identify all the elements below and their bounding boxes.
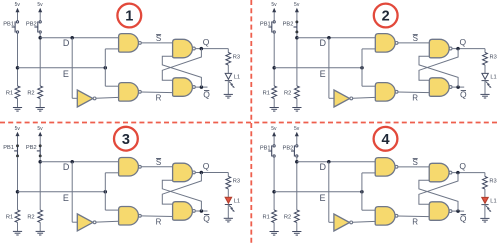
divider dashed vertical xyxy=(250,0,252,243)
wire E to gate U2 xyxy=(105,85,118,87)
svg-text:R3: R3 xyxy=(233,179,240,185)
wire R3 to LED xyxy=(484,189,486,197)
LED L1 (on) xyxy=(482,197,488,203)
NAND gate U4 latch top xyxy=(429,163,449,182)
svg-text:5v: 5v xyxy=(37,126,43,132)
wire Q output xyxy=(452,48,485,50)
resistor R3 xyxy=(226,176,231,189)
inverter U3 xyxy=(77,90,93,107)
resistor R2 xyxy=(38,86,43,99)
svg-text:5v: 5v xyxy=(271,2,277,8)
svg-text:5v: 5v xyxy=(294,2,300,8)
wire E to gate U1 xyxy=(361,173,363,210)
NAND gate U2 xyxy=(375,207,395,226)
wire R3 to LED xyxy=(227,189,229,197)
node Q-bar xyxy=(456,209,460,213)
wire LED to ground xyxy=(484,81,486,95)
NAND gate U1 xyxy=(119,34,139,53)
svg-text:D: D xyxy=(319,162,326,172)
5V supply for PB1 (step 3) xyxy=(17,135,19,145)
wire Q output xyxy=(452,172,485,174)
LED L1 (off) xyxy=(225,73,231,79)
wire Q to R3 xyxy=(227,49,229,53)
svg-text:PB2: PB2 xyxy=(26,21,37,27)
wire D line xyxy=(297,161,375,163)
ground below LED xyxy=(224,93,233,95)
wire S from U1 xyxy=(141,166,173,168)
node D junction xyxy=(38,36,42,40)
wire Q to R3 xyxy=(227,173,229,177)
ground below R1 xyxy=(17,99,19,108)
svg-text:R2: R2 xyxy=(27,215,34,221)
wire R3 to LED xyxy=(227,65,229,73)
ground below LED xyxy=(480,217,489,219)
svg-text:R1: R1 xyxy=(263,215,270,221)
ground below R2 xyxy=(39,222,41,231)
svg-text:5v: 5v xyxy=(271,126,277,132)
5V supply for PB1 (step 4) xyxy=(273,135,275,145)
node Q xyxy=(456,171,460,175)
node E branch xyxy=(104,66,108,70)
inverter U3 xyxy=(334,214,350,231)
resistor R3 xyxy=(483,53,488,66)
5V supply for PB2 (step 3) xyxy=(39,135,41,145)
pushbutton PB2 (step 1) xyxy=(37,21,39,32)
wire Q-bar to U4 input (cross) xyxy=(162,56,201,87)
node Q xyxy=(200,47,204,51)
pushbutton PB1 (step 3) xyxy=(17,145,19,156)
wire Q to R3 xyxy=(484,49,486,53)
pushbutton PB2 (step 3) xyxy=(39,145,41,156)
wire LED to ground xyxy=(227,205,229,219)
svg-text:2: 2 xyxy=(382,9,390,25)
ground below LED xyxy=(224,217,233,219)
svg-text:PB1: PB1 xyxy=(260,21,271,27)
NAND gate U2 xyxy=(119,83,139,102)
LED emission arrows xyxy=(229,82,233,87)
svg-text:1: 1 xyxy=(125,9,133,25)
ground below R1 xyxy=(273,223,275,232)
wire PB1 to R1 xyxy=(273,33,275,86)
wire Q to R3 xyxy=(484,173,486,177)
ground below R2 xyxy=(39,99,41,108)
pushbutton PB2 (step 4) xyxy=(293,145,295,156)
5V supply for PB2 (step 1) xyxy=(39,11,41,21)
resistor R1 xyxy=(272,86,277,99)
svg-text:PB1: PB1 xyxy=(260,145,271,151)
wire PB1 to R1 xyxy=(17,157,19,210)
ground below R2 xyxy=(296,99,298,108)
wire Q to U5 input (cross) xyxy=(419,49,458,81)
node D junction xyxy=(295,160,299,164)
svg-text:S: S xyxy=(413,34,418,43)
svg-text:S: S xyxy=(156,34,161,43)
node D junction xyxy=(295,36,299,40)
svg-text:R2: R2 xyxy=(27,91,34,97)
wire R from U2 xyxy=(398,215,430,218)
wire D line xyxy=(40,37,118,39)
node Q-bar xyxy=(200,209,204,213)
inverter U3 xyxy=(77,214,93,231)
svg-text:R: R xyxy=(156,94,162,103)
svg-text:E: E xyxy=(320,69,326,79)
wire D to inverter xyxy=(71,162,73,223)
step number 3 circle xyxy=(114,127,138,151)
wire D to inverter xyxy=(71,38,73,99)
wire PB2 to R2 xyxy=(39,157,41,210)
svg-text:R3: R3 xyxy=(490,55,497,61)
svg-text:Q: Q xyxy=(203,37,210,47)
pushbutton PB1 (step 1) xyxy=(14,21,16,32)
wire Q output xyxy=(196,172,229,174)
wire S from U1 xyxy=(398,42,430,44)
svg-text:5v: 5v xyxy=(15,126,21,132)
svg-text:5v: 5v xyxy=(294,126,300,132)
pushbutton PB1 (step 4) xyxy=(271,145,273,156)
wire D line xyxy=(297,37,375,39)
node Q-bar xyxy=(456,85,460,89)
svg-text:R3: R3 xyxy=(489,179,496,185)
wire E line xyxy=(18,67,106,69)
wire D to inverter xyxy=(328,38,330,99)
wire E line xyxy=(274,191,362,193)
wire E to gate U1 xyxy=(104,173,106,210)
node E junction xyxy=(272,66,276,70)
wire PB1 to R1 xyxy=(273,157,275,210)
wire PB2 to R2 xyxy=(296,33,298,86)
node E branch xyxy=(104,190,108,194)
wire D line xyxy=(40,161,118,163)
node E junction xyxy=(272,190,276,194)
svg-text:L1: L1 xyxy=(490,199,496,205)
svg-text:E: E xyxy=(319,193,325,203)
wire Q output xyxy=(196,48,229,50)
node E junction xyxy=(16,190,20,194)
svg-text:4: 4 xyxy=(381,132,389,148)
wire E line xyxy=(274,67,362,69)
svg-text:D: D xyxy=(63,162,70,172)
node D branch to inverter xyxy=(70,160,74,164)
divider dashed horizontal xyxy=(0,122,500,124)
svg-text:S: S xyxy=(156,158,161,167)
wire E to gate U1 xyxy=(104,49,106,86)
svg-text:Q: Q xyxy=(203,161,210,171)
NAND gate U5 latch bottom xyxy=(173,202,193,221)
wire D to inverter xyxy=(328,162,330,223)
wire Q-bar to U4 input (cross) xyxy=(162,180,201,211)
svg-text:D: D xyxy=(63,38,70,48)
LED emission arrows xyxy=(486,206,490,211)
svg-text:3: 3 xyxy=(122,132,130,148)
wire Q to U5 input (cross) xyxy=(162,173,201,205)
wire Q-bar to U4 input (cross) xyxy=(419,180,458,211)
svg-text:R3: R3 xyxy=(233,55,240,61)
NAND gate U5 latch bottom xyxy=(173,78,193,97)
node E branch xyxy=(360,190,364,194)
wire Q-bar output xyxy=(452,86,464,88)
wire R from U2 xyxy=(398,91,430,94)
NAND gate U4 latch top xyxy=(429,39,449,58)
resistor R1 xyxy=(15,210,20,223)
wire Q to U5 input (cross) xyxy=(419,173,458,205)
svg-text:L1: L1 xyxy=(234,199,240,205)
NAND gate U1 xyxy=(375,34,395,53)
wire inverter to gate U2 xyxy=(353,96,376,99)
wire inverter to gate U2 xyxy=(96,96,119,99)
svg-text:R1: R1 xyxy=(263,91,270,97)
svg-text:R2: R2 xyxy=(284,91,291,97)
svg-text:PB1: PB1 xyxy=(3,145,14,151)
wire Q-bar output xyxy=(452,210,464,212)
node Q xyxy=(456,47,460,51)
svg-text:Q: Q xyxy=(459,161,466,171)
5V supply for PB2 (step 4) xyxy=(296,135,298,145)
LED L1 (off) xyxy=(482,73,488,79)
svg-text:Q: Q xyxy=(459,37,466,47)
resistor R2 xyxy=(295,86,300,99)
resistor R1 xyxy=(15,86,20,99)
node Q xyxy=(200,171,204,175)
svg-text:5v: 5v xyxy=(15,2,21,8)
wire E to gate U2 xyxy=(362,85,375,87)
ground below R1 xyxy=(17,222,19,231)
wire R from U2 xyxy=(141,91,173,94)
wire S from U1 xyxy=(398,166,430,168)
wire E to gate U2 xyxy=(362,209,375,211)
pushbutton PB2 (step 2) xyxy=(296,21,298,32)
wire R3 to LED xyxy=(484,65,486,73)
5V supply for PB1 (step 2) xyxy=(273,11,275,21)
NAND gate U4 latch top xyxy=(173,39,193,58)
node E branch xyxy=(360,66,364,70)
wire R from U2 xyxy=(141,215,173,218)
resistor R3 xyxy=(483,177,488,190)
node D branch to inverter xyxy=(327,160,331,164)
NAND gate U2 xyxy=(375,83,395,102)
NAND gate U4 latch top xyxy=(173,163,193,182)
NAND gate U2 xyxy=(119,207,139,226)
node Q-bar xyxy=(200,85,204,89)
ground below LED xyxy=(480,93,489,95)
5V supply for PB1 (step 1) xyxy=(17,11,19,21)
inverter U3 xyxy=(334,90,350,107)
svg-text:R2: R2 xyxy=(284,215,291,221)
svg-text:R: R xyxy=(156,218,162,227)
LED emission arrows xyxy=(486,82,490,87)
wire Q to U5 input (cross) xyxy=(162,49,201,81)
wire E line xyxy=(18,191,106,193)
wire inverter to gate U2 xyxy=(96,220,119,223)
wire Q-bar output xyxy=(196,210,208,212)
LED L1 (on) xyxy=(225,197,231,203)
node D branch to inverter xyxy=(70,36,74,40)
wire Q-bar to U4 input (cross) xyxy=(419,56,458,87)
resistor R2 xyxy=(38,210,43,223)
5V supply for PB2 (step 2) xyxy=(296,11,298,21)
wire E to gate U1 xyxy=(361,49,363,86)
node D junction xyxy=(38,160,42,164)
ground below R1 xyxy=(273,99,275,108)
step number 1 circle xyxy=(117,4,141,28)
svg-text:E: E xyxy=(63,193,69,203)
svg-text:L1: L1 xyxy=(490,75,496,81)
wire E to gate U2 xyxy=(105,209,118,211)
svg-text:R1: R1 xyxy=(6,91,13,97)
LED emission arrows xyxy=(229,206,233,211)
svg-text:PB1: PB1 xyxy=(3,21,14,27)
svg-text:E: E xyxy=(63,69,69,79)
svg-text:PB2: PB2 xyxy=(283,21,294,27)
node E junction xyxy=(16,66,20,70)
wire PB1 to R1 xyxy=(17,33,19,86)
NAND gate U1 xyxy=(375,158,395,177)
svg-text:R: R xyxy=(412,218,418,227)
step number 2 circle xyxy=(374,4,398,28)
node D branch to inverter xyxy=(327,36,331,40)
wire S from U1 xyxy=(141,42,173,44)
resistor R1 xyxy=(272,210,277,223)
wire LED to ground xyxy=(484,205,486,219)
step number 4 circle xyxy=(374,127,398,151)
wire inverter to gate U2 xyxy=(353,220,376,223)
svg-text:L1: L1 xyxy=(234,75,240,81)
svg-text:PB2: PB2 xyxy=(26,145,37,151)
wire PB2 to R2 xyxy=(296,157,298,210)
NAND gate U5 latch bottom xyxy=(429,78,449,97)
svg-text:S: S xyxy=(413,158,418,167)
pushbutton PB1 (step 2) xyxy=(271,21,273,32)
wire Q-bar output xyxy=(196,86,208,88)
NAND gate U5 latch bottom xyxy=(429,202,449,221)
svg-text:R1: R1 xyxy=(6,215,13,221)
svg-text:D: D xyxy=(320,38,327,48)
svg-text:5v: 5v xyxy=(37,2,43,8)
svg-text:PB2: PB2 xyxy=(283,145,294,151)
wire PB2 to R2 xyxy=(39,33,41,86)
resistor R2 xyxy=(294,210,299,223)
resistor R3 xyxy=(226,53,231,66)
wire LED to ground xyxy=(227,81,229,95)
svg-text:R: R xyxy=(412,94,418,103)
ground below R2 xyxy=(296,223,298,232)
NAND gate U1 xyxy=(119,158,139,177)
